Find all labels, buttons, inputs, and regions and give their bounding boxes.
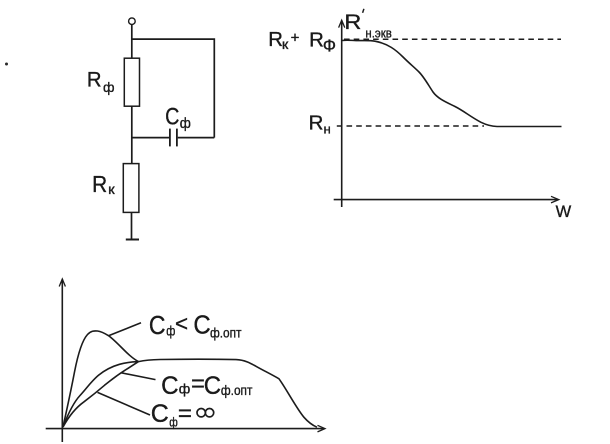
label CФ=CФ.опт [161,370,252,401]
svg-text:C: C [161,373,178,401]
svg-text:=: = [178,401,192,426]
label CФ [165,103,191,131]
wire [132,137,169,139]
svg-text:R: R [309,30,324,52]
wire [131,212,133,239]
svg-text:R: R [309,112,324,135]
svg-text:ф: ф [166,323,175,338]
svg-text:ф: ф [103,79,115,95]
svg-text:ф: ф [179,381,191,397]
wire [178,137,215,139]
svg-text:W: W [556,203,572,221]
curve CФ=infinity [63,362,139,427]
label CФ=infinity [151,400,214,430]
x-axis [334,199,558,201]
wire [132,39,215,138]
svg-text:R: R [268,29,283,51]
resistor Rк [123,164,139,213]
svg-text:Ф: Ф [323,36,336,56]
x-axis [46,428,324,430]
label R'н.экв [344,9,391,41]
svg-text:<: < [175,311,188,336]
svg-text:C: C [149,312,166,340]
wire [131,106,133,163]
resistor RФ [124,58,139,106]
svg-text:н: н [324,122,331,137]
svg-text:ф: ф [180,114,191,131]
svg-text:C: C [151,400,169,428]
curve CФ&lt;CФ.опт [63,331,139,427]
curve Rн.экв(W) [342,40,562,126]
svg-text:ф.опт: ф.опт [210,325,242,341]
y-axis [341,20,343,207]
dashed line at Rк+RФ level [344,38,561,40]
label Rк [92,171,115,198]
y-axis [61,279,63,442]
dashed line at Rн level [337,125,484,127]
svg-text:R: R [92,171,107,197]
svg-text:C: C [165,103,179,130]
leader line to CФ=CФ.опт [122,373,156,380]
svg-text:R: R [344,10,361,34]
ground [126,239,139,241]
label RФ [87,68,115,95]
svg-text:=: = [191,370,205,398]
leader line to CФ&lt;CФ.опт [109,323,142,336]
capacitor CФ [170,129,177,147]
svg-text:к: к [108,183,115,198]
svg-text:ф: ф [169,415,178,429]
leader line to CФ=infinity [98,392,151,415]
svg-text:C: C [204,372,221,400]
svg-text:R: R [87,68,102,92]
svg-text:н.экв: н.экв [365,26,391,41]
stray dot [5,63,8,66]
svg-text:к: к [282,37,289,53]
label Rк + RФ [268,29,336,56]
label CФ&lt;CФ.опт [149,311,242,341]
curve CФ=CФ.опт [63,362,139,427]
plateau curve [139,359,318,427]
label Rн [309,112,331,137]
svg-text:ф.опт: ф.опт [221,382,253,398]
svg-text:+: + [291,29,300,46]
input terminal [129,18,136,25]
svg-text:C: C [193,311,210,340]
wire [131,25,133,59]
